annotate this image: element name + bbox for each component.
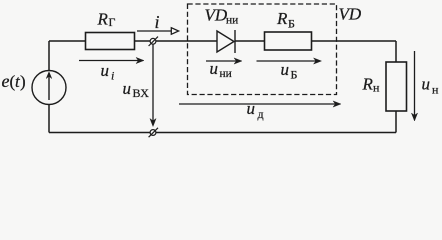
svg-text:ни: ни xyxy=(226,15,238,27)
svg-text:R: R xyxy=(276,9,288,28)
svg-text:н: н xyxy=(432,83,439,97)
svg-text:VD: VD xyxy=(205,6,228,25)
diode VD_ni xyxy=(217,30,235,53)
voltage arrow u_ni xyxy=(206,58,242,64)
wire: top-left horizontal to R_G xyxy=(49,40,86,42)
svg-text:u: u xyxy=(210,59,219,78)
svg-text:н: н xyxy=(373,81,380,95)
resistor R_N body (vertical) xyxy=(386,62,407,111)
svg-text:Б: Б xyxy=(288,16,295,30)
svg-text:R: R xyxy=(97,10,109,29)
svg-text:Г: Г xyxy=(109,15,116,29)
svg-text:ни: ни xyxy=(220,68,232,80)
wire: source top to top wire xyxy=(48,41,50,71)
svg-text:i: i xyxy=(111,69,114,83)
svg-text:u: u xyxy=(123,79,132,98)
resistor R_B body xyxy=(265,32,312,50)
svg-text:u: u xyxy=(101,61,110,80)
source arrow (up) xyxy=(46,72,52,100)
svg-text:VD: VD xyxy=(339,5,362,24)
wire: R_G to diode (through node) xyxy=(135,40,218,42)
voltage arrow u_D (long, under box) xyxy=(179,101,341,107)
wire: diode to R_B xyxy=(235,40,265,42)
voltage arrow u_BX (vertical) xyxy=(150,44,156,127)
svg-text:u: u xyxy=(281,60,290,79)
svg-text:u: u xyxy=(422,75,431,94)
svg-text:Б: Б xyxy=(291,68,298,82)
wire: source bottom to bottom wire xyxy=(48,105,50,133)
wire: right vertical top xyxy=(395,41,397,62)
node (input terminal, bottom) xyxy=(149,128,158,137)
svg-text:д: д xyxy=(258,107,264,121)
svg-text:): ) xyxy=(20,72,26,91)
voltage arrow u_B xyxy=(257,58,322,64)
svg-text:e: e xyxy=(2,71,10,91)
svg-text:i: i xyxy=(155,12,160,32)
svg-text:u: u xyxy=(247,99,256,118)
node (input terminal, top) xyxy=(149,37,158,46)
resistor R_G body xyxy=(86,33,135,50)
wire: R_B to right corner xyxy=(312,40,397,42)
voltage arrow u_i xyxy=(79,57,144,63)
svg-text:R: R xyxy=(362,75,374,94)
wire: bottom horizontal xyxy=(49,132,396,134)
source e(t) circle xyxy=(32,71,66,105)
svg-text:ВХ: ВХ xyxy=(133,86,150,100)
current arrow i xyxy=(137,28,179,35)
voltage arrow u_n (vertical, right) xyxy=(411,51,417,121)
wire: right vertical bottom xyxy=(395,111,397,133)
dashed box VD xyxy=(188,4,337,95)
